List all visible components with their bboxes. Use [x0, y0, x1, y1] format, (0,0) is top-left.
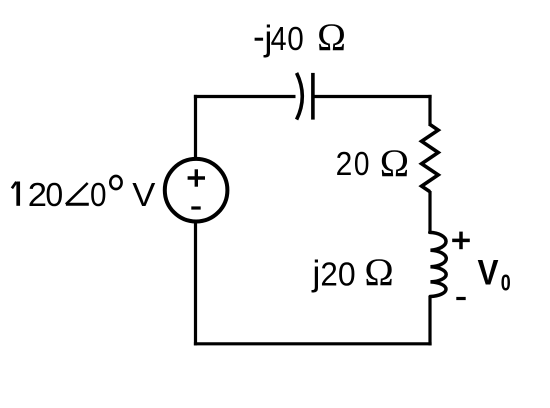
wire right middle [428, 191, 431, 233]
degree ring [110, 176, 121, 189]
angle symbol [66, 183, 88, 204]
wire right lower [428, 296, 431, 345]
wire top-right segment [313, 95, 432, 98]
wire left upper [194, 95, 197, 160]
svg-text:2: 2 [320, 256, 337, 293]
capacitor C1 straight plate [311, 73, 315, 120]
svg-text:0: 0 [45, 177, 63, 214]
svg-text:V: V [478, 254, 499, 293]
svg-text:0: 0 [354, 146, 370, 183]
voltage source VS circle [165, 159, 228, 222]
wire top-left segment [194, 95, 296, 98]
inductor L1 coil [430, 232, 446, 296]
svg-text:4: 4 [271, 20, 287, 57]
voltage source plus sign [188, 169, 205, 186]
svg-text:j: j [311, 254, 320, 293]
svg-text:0: 0 [338, 256, 356, 293]
svg-text:0: 0 [287, 20, 304, 57]
resistor R1 zigzag [422, 125, 439, 192]
svg-text:Ω: Ω [380, 141, 409, 185]
svg-text:0: 0 [501, 271, 511, 297]
label 120 angle 0 V : digit 1 [12, 182, 17, 188]
wire left lower [194, 221, 197, 345]
capacitor C1 curved plate [297, 73, 303, 120]
inductor plus sign [452, 232, 470, 250]
svg-text:0: 0 [90, 177, 107, 214]
svg-text:2: 2 [28, 177, 47, 214]
wire bottom [194, 342, 432, 345]
svg-text:2: 2 [336, 145, 353, 183]
wire right upper [428, 95, 431, 126]
svg-text:V: V [132, 177, 156, 214]
inductor minus sign [456, 297, 465, 300]
svg-text:Ω: Ω [317, 16, 346, 59]
svg-text:Ω: Ω [364, 250, 393, 294]
label -j40 ohms : minus [255, 38, 264, 41]
voltage source minus sign [191, 206, 200, 209]
